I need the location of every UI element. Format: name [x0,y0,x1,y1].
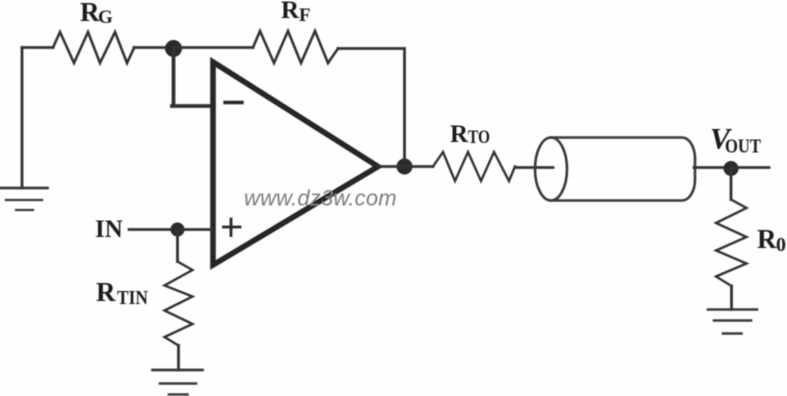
ground left [0,188,48,210]
ground right [708,310,757,334]
wire node A to RF [173,46,253,49]
resistor RF [253,31,338,63]
label VOUT [710,123,762,158]
ground center [153,370,203,395]
wire IN to node B [129,228,172,231]
node output dot [397,159,413,175]
svg-text:www.dz3w.com: www.dz3w.com [244,186,397,211]
wire output to RTO [378,165,433,168]
wire RG to node A [134,46,168,49]
svg-text:R: R [757,224,777,254]
wire cable to VOUT node [694,166,731,169]
wire RTO to cable center conductor [515,166,553,169]
wire left top segment to RG [22,46,53,49]
wire RF to feedback corner [338,47,404,50]
op-amp inverting input minus symbol [225,101,242,104]
resistor RO [716,200,747,287]
label RO [757,224,786,256]
label RF [281,0,311,26]
coax cable body [535,138,695,201]
svg-text:TO: TO [468,127,490,148]
svg-text:G: G [98,7,113,28]
wire node A down to inverting input [172,49,212,107]
svg-text:OUT: OUT [725,136,762,158]
svg-text:IN: IN [95,216,123,243]
resistor RTIN [165,262,193,346]
op-amp non-inverting input plus symbol [224,219,241,236]
wire VOUT to right [731,166,769,169]
wire feedback vertical [403,49,406,167]
node VOUT dot [724,161,739,176]
wire VOUT down to RO [730,169,733,200]
label RG [80,0,113,28]
node B junction dot [171,223,185,237]
label RTIN [96,277,148,309]
svg-text:R: R [80,0,100,27]
wire node B to non-inverting input [177,228,212,231]
node A junction dot [165,40,182,57]
label IN [95,216,123,243]
wire RTIN to ground [177,346,180,371]
watermark text [244,186,397,211]
svg-text:R: R [450,121,469,148]
svg-text:F: F [299,5,311,26]
label RTO [450,121,490,148]
wire RO to ground [730,286,733,310]
op-amp U1 [213,62,378,265]
svg-text:0: 0 [776,234,786,256]
resistor RTO [433,152,515,181]
svg-text:R: R [281,0,300,24]
wire left vertical to ground [21,48,24,189]
svg-text:R: R [96,277,116,307]
resistor RG [53,32,134,63]
svg-text:TIN: TIN [117,287,148,309]
wire node B down to RTIN [176,230,179,262]
